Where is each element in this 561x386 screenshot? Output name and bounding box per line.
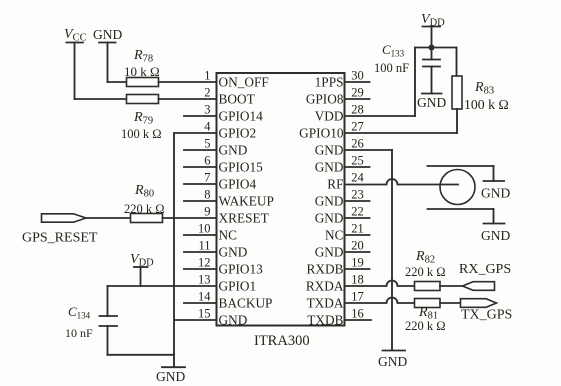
svg-text:8: 8	[204, 188, 210, 202]
svg-text:TXDB: TXDB	[307, 313, 343, 328]
pin number 12	[198, 256, 211, 270]
value 10 kOhm R78	[124, 64, 160, 79]
resistor R78	[127, 78, 159, 87]
pin label TXDB (pin 16)	[307, 313, 343, 328]
svg-text:24: 24	[351, 171, 364, 185]
pin number 15	[198, 307, 211, 321]
svg-text:ON_OFF: ON_OFF	[219, 75, 269, 90]
svg-text:GND: GND	[219, 143, 248, 158]
svg-text:GND: GND	[219, 245, 248, 260]
ground symbol GND (under C133)	[417, 94, 446, 111]
resistor R79	[127, 95, 159, 104]
pin label GND (pin 25)	[315, 160, 344, 175]
pin label NC (pin 21)	[325, 228, 344, 243]
pin number 19	[351, 256, 364, 270]
label R78	[133, 48, 153, 65]
svg-text:26: 26	[351, 137, 364, 151]
wire pin5 stub	[184, 149, 217, 151]
capacitor C133	[423, 48, 440, 94]
svg-text:BOOT: BOOT	[219, 92, 255, 107]
pin number 7	[204, 171, 210, 185]
svg-text:10 nF: 10 nF	[65, 326, 93, 340]
wire pin29 GPIO8 stub	[345, 98, 370, 100]
svg-text:15: 15	[198, 307, 211, 321]
pin label GND (pin 5)	[219, 143, 248, 158]
wire pin16 TXDB stub	[345, 319, 372, 321]
wire pin14 BACKUP stub	[184, 302, 217, 304]
svg-text:18: 18	[351, 273, 364, 287]
wire C134 branch down	[107, 286, 109, 316]
connector TX_GPS flag	[461, 299, 497, 308]
resistor R82	[415, 282, 441, 291]
svg-text:220 k Ω: 220 k Ω	[124, 202, 165, 216]
power symbol VDD (left)	[130, 252, 154, 286]
svg-text:9: 9	[204, 205, 210, 219]
svg-text:GPIO8: GPIO8	[306, 92, 344, 107]
svg-text:17: 17	[351, 290, 364, 304]
svg-text:RX_GPS: RX_GPS	[459, 262, 511, 277]
svg-text:GND: GND	[481, 186, 510, 201]
svg-text:GND: GND	[315, 245, 344, 260]
svg-text:5: 5	[204, 137, 210, 151]
pin label GPIO1 (pin 13)	[219, 279, 257, 294]
connector RX_GPS flag	[463, 282, 495, 291]
wire pin26 GND to vertical ground line	[345, 149, 393, 151]
pin label GPIO14 (pin 3)	[219, 109, 264, 124]
value 220 kOhm R80	[124, 202, 165, 216]
svg-text:RF: RF	[327, 177, 343, 192]
svg-text:1: 1	[204, 69, 210, 83]
label R80	[134, 183, 154, 200]
value 100 nF C133	[374, 61, 409, 75]
svg-text:14: 14	[198, 290, 211, 304]
svg-text:13: 13	[198, 273, 211, 287]
capacitor C134	[100, 316, 118, 355]
pin number 3	[204, 103, 210, 117]
pin number 5	[204, 137, 210, 151]
svg-text:BACKUP: BACKUP	[219, 296, 273, 311]
pin label TXDA (pin 17)	[307, 296, 344, 311]
pin number 17	[351, 290, 364, 304]
pin label RF (pin 24)	[327, 177, 343, 192]
svg-text:23: 23	[351, 188, 364, 202]
ground symbol GND (antenna bottom)	[481, 209, 510, 243]
pin number 4	[204, 120, 211, 134]
pin label RXDA (pin 18)	[306, 279, 344, 294]
wire VDD rail	[415, 47, 457, 49]
svg-text:27: 27	[351, 120, 364, 134]
svg-text:6: 6	[204, 154, 210, 168]
wire pin20 stub	[345, 251, 370, 253]
pin number 13	[198, 273, 211, 287]
pin number 23	[351, 188, 364, 202]
wire antenna shield bottom	[428, 208, 494, 210]
power symbol Vcc (net VCC)	[64, 27, 87, 99]
pin label RXDB (pin 19)	[307, 262, 344, 277]
svg-text:XRESET: XRESET	[219, 211, 269, 226]
label C133	[382, 42, 405, 59]
svg-text:2: 2	[204, 86, 210, 100]
svg-text:GPIO14: GPIO14	[219, 109, 264, 124]
value 100 kOhm R83	[464, 97, 509, 112]
pin number 8	[204, 188, 210, 202]
svg-text:GPIO15: GPIO15	[219, 160, 264, 175]
wire antenna shield top	[428, 165, 494, 167]
wire GPS_RESET to R80	[86, 217, 131, 219]
ground symbol GND (bottom right)	[378, 351, 407, 370]
wire pin22 stub	[345, 217, 370, 219]
svg-text:4: 4	[204, 120, 211, 134]
wire pin19 stub	[345, 268, 370, 270]
ground symbol GND (antenna top)	[481, 166, 510, 201]
svg-text:30: 30	[351, 69, 364, 83]
value 10 nF C134	[65, 326, 93, 340]
pin label GND (pin 11)	[219, 245, 248, 260]
connector GPS_RESET flag	[42, 214, 87, 222]
svg-text:1PPS: 1PPS	[315, 75, 344, 90]
svg-text:3: 3	[204, 103, 210, 117]
svg-text:NC: NC	[325, 228, 344, 243]
node VDD junction dot	[429, 45, 435, 51]
wire pin18 RXDA with hop over ground line	[345, 281, 415, 287]
svg-text:10: 10	[198, 222, 211, 236]
pin label GND (pin 20)	[315, 245, 344, 260]
pin number 25	[351, 154, 364, 168]
pin label GND (pin 23)	[315, 194, 344, 209]
pin label GPIO10 (pin 27)	[299, 126, 344, 141]
pin label WAKEUP (pin 8)	[219, 194, 274, 209]
svg-text:100 k Ω: 100 k Ω	[121, 127, 162, 141]
pin number 9	[204, 205, 210, 219]
pin label GND (pin 15)	[219, 313, 248, 328]
pin number 28	[351, 103, 364, 117]
value 100 kOhm R79	[121, 127, 162, 141]
svg-text:ITRA300: ITRA300	[254, 333, 310, 349]
svg-text:19: 19	[351, 256, 364, 270]
pin label GPIO15 (pin 6)	[219, 160, 264, 175]
pin label GPIO2 (pin 4)	[219, 126, 257, 141]
svg-text:220 k Ω: 220 k Ω	[405, 319, 446, 333]
wire pin30 1PPS stub	[345, 81, 370, 83]
wire VDD rail to R83	[456, 48, 458, 77]
svg-text:RXDB: RXDB	[307, 262, 344, 277]
svg-text:29: 29	[351, 86, 364, 100]
svg-text:GND: GND	[378, 354, 407, 369]
svg-text:100 k Ω: 100 k Ω	[464, 97, 509, 112]
wire R82 to RX_GPS	[440, 285, 463, 287]
svg-text:TX_GPS: TX_GPS	[461, 308, 512, 323]
pin label GPIO8 (pin 29)	[306, 92, 344, 107]
svg-text:RXDA: RXDA	[306, 279, 344, 294]
svg-text:GPIO13: GPIO13	[219, 262, 264, 277]
label ITRA300	[254, 333, 310, 349]
pin label BACKUP (pin 14)	[219, 296, 273, 311]
pin number 18	[351, 273, 364, 287]
pin label ON_OFF (pin 1)	[219, 75, 269, 90]
wire GND-top to R78	[108, 81, 127, 83]
resistor R83 (vertical)	[452, 76, 462, 109]
wire pin28 VDD to rail	[345, 48, 416, 117]
svg-text:GND: GND	[219, 313, 248, 328]
pin number 27	[351, 120, 364, 134]
svg-text:100 nF: 100 nF	[374, 61, 409, 75]
svg-text:22: 22	[351, 205, 364, 219]
wire pin21 stub	[345, 234, 370, 236]
svg-text:GPIO1: GPIO1	[219, 279, 257, 294]
pin number 21	[351, 222, 364, 236]
svg-text:GND: GND	[417, 95, 446, 110]
svg-text:28: 28	[351, 103, 364, 117]
value 220 kOhm R82	[405, 265, 446, 279]
resistor R80	[131, 214, 163, 223]
value 220 kOhm R81	[405, 319, 446, 333]
label RX_GPS	[459, 262, 511, 277]
pin label 1PPS (pin 30)	[315, 75, 344, 90]
wire pin11 stub	[184, 251, 217, 253]
op-amp U1 IC body ITRA300	[217, 73, 345, 326]
antenna connector circle	[440, 170, 475, 205]
svg-text:25: 25	[351, 154, 364, 168]
label C134	[68, 304, 91, 321]
svg-text:GPIO10: GPIO10	[299, 126, 344, 141]
svg-text:16: 16	[351, 307, 364, 321]
pin number 11	[198, 239, 210, 253]
pin label GND (pin 22)	[315, 211, 344, 226]
wire pin13 GPIO1 to VDD and C134	[108, 285, 217, 287]
svg-text:GPIO2: GPIO2	[219, 126, 257, 141]
pin number 26	[351, 137, 364, 151]
svg-text:GND: GND	[156, 369, 185, 384]
wire pin23 stub	[345, 200, 370, 202]
svg-text:GPIO4: GPIO4	[219, 177, 257, 192]
svg-text:GPS_RESET: GPS_RESET	[22, 231, 98, 246]
label R79	[133, 110, 153, 127]
wire pin3 GPIO14 stub	[184, 115, 217, 117]
pin number 1	[204, 69, 210, 83]
pin label VDD (pin 28)	[315, 109, 344, 124]
label R81	[418, 305, 438, 322]
svg-text:GND: GND	[481, 228, 510, 243]
wire pin7 stub	[184, 183, 217, 185]
svg-text:GND: GND	[315, 211, 344, 226]
wire R79 to pin2 BOOT	[159, 98, 217, 100]
svg-text:220 k Ω: 220 k Ω	[405, 265, 446, 279]
label GPS_RESET	[22, 231, 98, 246]
wire pin25 GND stub	[345, 166, 370, 168]
wire C134 bottom to ground bus	[108, 354, 175, 356]
pin label BOOT (pin 2)	[219, 92, 255, 107]
wire R81 to TX_GPS	[440, 302, 461, 304]
wire R78 to pin1 ON_OFF	[159, 81, 217, 83]
pin number 24	[351, 171, 364, 185]
svg-text:7: 7	[204, 171, 210, 185]
svg-text:12: 12	[198, 256, 211, 270]
label R83	[474, 80, 494, 97]
pin number 20	[351, 239, 364, 253]
svg-text:20: 20	[351, 239, 364, 253]
pin number 2	[204, 86, 210, 100]
svg-text:GND: GND	[315, 194, 344, 209]
wire Vcc to R79	[75, 98, 127, 100]
svg-text:VDD: VDD	[315, 109, 344, 124]
label R82	[415, 249, 435, 266]
pin label GPIO4 (pin 7)	[219, 177, 257, 192]
svg-text:GND: GND	[315, 160, 344, 175]
pin number 30	[351, 69, 364, 83]
pin label GPIO13 (pin 12)	[219, 262, 264, 277]
wire pin6 stub	[184, 166, 217, 168]
pin number 6	[204, 154, 210, 168]
pin number 10	[198, 222, 211, 236]
ground symbol GND (bottom left)	[156, 367, 185, 384]
wire pin12 stub	[184, 268, 217, 270]
pin number 16	[351, 307, 364, 321]
power symbol VDD (top right)	[421, 12, 445, 48]
svg-text:NC: NC	[219, 228, 238, 243]
svg-text:GND: GND	[93, 27, 122, 42]
pin label XRESET (pin 9)	[219, 211, 269, 226]
svg-text:21: 21	[351, 222, 364, 236]
svg-text:10 k Ω: 10 k Ω	[124, 64, 160, 79]
wire pin8 stub	[184, 200, 217, 202]
pin number 22	[351, 205, 364, 219]
wire pin10 stub	[184, 234, 217, 236]
wire pin24 RF with hop over ground line	[345, 179, 459, 185]
wire pin15 GND to ground bus	[174, 319, 217, 321]
wire vertical ground line	[391, 150, 393, 350]
ground symbol GND (top left)	[93, 27, 122, 82]
svg-text:TXDA: TXDA	[307, 296, 344, 311]
resistor R81	[415, 299, 441, 308]
wire R83 to pin27 GPIO10	[345, 109, 458, 133]
wire left ground bus vertical	[173, 133, 175, 367]
wire pin17 TXDA with hop over ground line	[345, 298, 415, 304]
label TX_GPS	[461, 308, 512, 323]
pin label GND (pin 26)	[315, 143, 344, 158]
pin number 14	[198, 290, 211, 304]
svg-text:WAKEUP: WAKEUP	[219, 194, 274, 209]
svg-text:GND: GND	[315, 143, 344, 158]
pin number 29	[351, 86, 364, 100]
wire pin4 GPIO2 to ground bus	[174, 132, 217, 134]
svg-text:11: 11	[198, 239, 210, 253]
wire R80 to pin9 XRESET	[163, 217, 217, 219]
pin label NC (pin 10)	[219, 228, 238, 243]
